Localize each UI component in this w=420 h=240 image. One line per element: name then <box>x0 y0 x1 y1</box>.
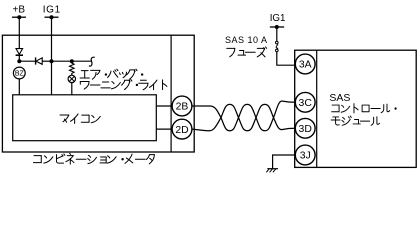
connector pin 3D <box>295 118 315 138</box>
microcomputer box <box>13 95 157 141</box>
meter connector column line <box>170 35 172 152</box>
svg-text:SAS: SAS <box>329 92 350 104</box>
connector pin 3J <box>295 145 315 165</box>
buzzer BZ <box>13 67 25 79</box>
svg-text:SAS 10 A: SAS 10 A <box>225 35 268 45</box>
wire IG1 line down to microcomputer <box>51 61 53 95</box>
node A junction dot <box>17 59 21 63</box>
wire IG1 down to node <box>51 17 53 61</box>
svg-text:3D: 3D <box>299 124 312 135</box>
svg-text:2B: 2B <box>176 102 189 113</box>
SAS connector column line <box>316 50 318 167</box>
air bag warning light L1 <box>68 75 75 82</box>
wire IG1 to fuse <box>276 27 278 42</box>
svg-text:IG1: IG1 <box>43 5 61 16</box>
twisted pair wire 2B to 3C <box>192 101 295 131</box>
wire node C to pigtail <box>72 60 91 62</box>
connector pin 3A <box>295 54 315 74</box>
twisted pair wire 2D to 3D <box>192 104 295 130</box>
connector pin 3C <box>295 92 315 112</box>
wire BZ to microcomputer <box>18 79 20 95</box>
ground <box>267 168 278 170</box>
connector pin 2B <box>172 96 192 116</box>
diode D2 (points left) <box>35 57 37 64</box>
wire node A to diode D2 <box>19 60 35 62</box>
wire lamp to microcomputer <box>71 83 73 95</box>
terminal IG1 (left) <box>45 16 59 18</box>
wire fuse to 3A <box>277 52 295 65</box>
label combination meter <box>33 156 41 163</box>
svg-text:IG1: IG1 <box>270 13 286 24</box>
label air bag warning light <box>80 71 89 78</box>
wire microcomputer to 2B <box>156 105 172 107</box>
SAS control module box <box>295 50 417 167</box>
svg-text:3J: 3J <box>300 151 311 162</box>
terminal IG1 (right) <box>270 26 284 28</box>
svg-text:3A: 3A <box>299 60 312 71</box>
svg-text:+B: +B <box>13 5 26 16</box>
svg-text:2D: 2D <box>175 125 188 136</box>
wire microcomputer to 2D <box>156 128 172 130</box>
terminal +B <box>12 16 26 18</box>
fuse SAS 10 A <box>276 41 279 44</box>
node C junction dot at lamp branch <box>70 59 74 63</box>
combination meter box <box>2 35 194 152</box>
wire diode D2 to IG1 node <box>42 60 51 62</box>
wire node B to lamp node <box>52 60 72 62</box>
wire 3J to ground <box>273 155 296 169</box>
zener diode D1 on +B line <box>16 49 23 55</box>
pigtail continuation hook <box>89 57 94 66</box>
resistor R1 <box>70 61 75 75</box>
wire zener to node A <box>18 55 20 61</box>
wire +B down into meter <box>18 17 20 48</box>
svg-text:3C: 3C <box>299 98 313 109</box>
svg-text:BZ: BZ <box>15 70 25 77</box>
node B junction dot on IG1 line <box>50 59 54 63</box>
label microcomputer <box>60 115 69 122</box>
connector pin 2D <box>172 119 192 139</box>
